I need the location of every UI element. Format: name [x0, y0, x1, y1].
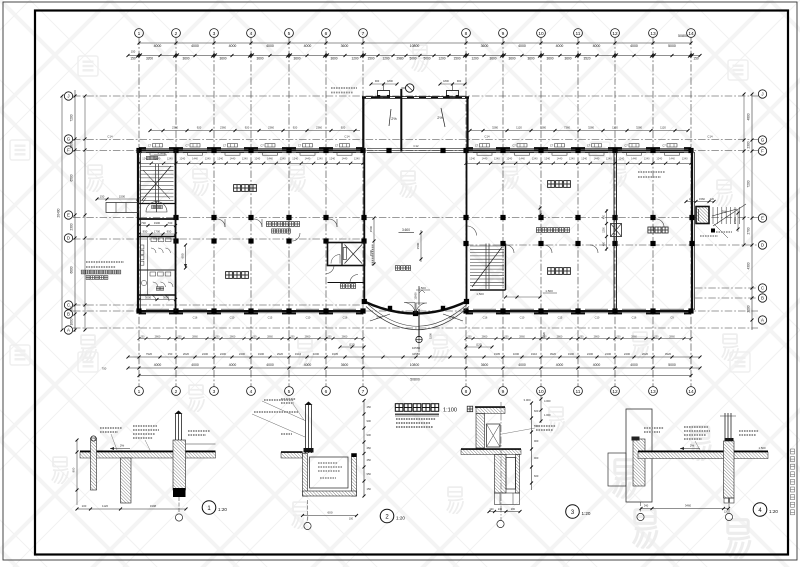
bottom dimension line 3 - 4000 row: [128, 367, 700, 369]
svg-text:J: J: [761, 92, 763, 97]
detail 4 bubble: [753, 503, 767, 517]
svg-text:G: G: [761, 138, 765, 143]
svg-text:3600: 3600: [293, 57, 300, 61]
svg-text:C10: C10: [230, 316, 235, 320]
svg-text:1998: 1998: [150, 504, 157, 508]
svg-text:2400: 2400: [202, 352, 209, 356]
elevator capacity rotated text: [372, 246, 374, 248]
annotation lines left of plan: [86, 261, 124, 263]
svg-text:1900: 1900: [258, 352, 265, 356]
window dim row above wall right wing: [470, 130, 688, 132]
svg-text:950: 950: [167, 230, 172, 234]
columns bottom wall: [136, 308, 141, 313]
svg-text:3520: 3520: [583, 57, 590, 61]
detail 3 wall below with cavity: [495, 455, 507, 494]
svg-text:600: 600: [534, 409, 539, 413]
detail 1 bottom dims: [77, 508, 186, 510]
lobby curved front wall thick: [364, 302, 466, 314]
stair landing wall: [139, 203, 176, 205]
small room below toilets doors: [150, 295, 156, 301]
svg-text:1240: 1240: [606, 156, 612, 160]
grid bubbles left side: [64, 92, 72, 334]
phi75 steel pipe label: [264, 399, 294, 401]
lobby right staircase: [470, 244, 504, 290]
svg-text:920: 920: [245, 125, 250, 129]
detail 1 left dim chain: [76, 440, 78, 505]
svg-text:C16: C16: [193, 316, 198, 320]
svg-text:1.500: 1.500: [418, 286, 426, 290]
office area label bottom-left wing: [226, 272, 249, 279]
svg-text:900: 900: [375, 79, 380, 83]
svg-text:4000: 4000: [266, 44, 274, 48]
office area label top-right wing: [548, 181, 571, 188]
detail 2 bubble: [380, 509, 394, 523]
axis bubble mid entrance: [406, 84, 414, 92]
svg-text:3280: 3280: [588, 125, 594, 129]
svg-text:2860: 2860: [557, 334, 563, 338]
title block vertical text right edge: [791, 449, 795, 515]
svg-text:3600: 3600: [219, 57, 226, 61]
svg-text:2400: 2400: [587, 352, 594, 356]
annotation right wing roof drain: [638, 171, 665, 173]
svg-text:7360: 7360: [564, 125, 570, 129]
svg-text:B: B: [761, 296, 764, 301]
svg-text:1240: 1240: [280, 156, 286, 160]
svg-text:1500: 1500: [367, 57, 374, 61]
svg-text:700: 700: [168, 221, 173, 225]
detail 3 bubble: [566, 505, 580, 519]
svg-text:1560: 1560: [699, 197, 705, 201]
svg-text:1000: 1000: [513, 352, 520, 356]
svg-text:3000: 3000: [145, 295, 152, 299]
svg-text:900: 900: [367, 433, 372, 437]
central bay roof drain boxes: [378, 91, 390, 98]
svg-text:2400: 2400: [239, 352, 246, 356]
grid bubbles bottom: [135, 387, 696, 396]
detail 4 boxes under right wall: [724, 498, 729, 503]
svg-text:J: J: [67, 94, 69, 99]
canopy centerline and anchor: [418, 309, 420, 336]
svg-text:1:20: 1:20: [582, 511, 591, 516]
svg-text:C16: C16: [632, 316, 637, 320]
svg-text:100: 100: [349, 518, 354, 521]
svg-text:4000: 4000: [556, 363, 564, 367]
svg-text:3600: 3600: [489, 57, 496, 61]
columns on lobby curve: [362, 299, 367, 304]
svg-text:10580: 10580: [412, 352, 420, 356]
svg-text:12: 12: [612, 389, 618, 395]
svg-text:3600: 3600: [481, 44, 489, 48]
svg-text:1240: 1240: [644, 156, 650, 160]
svg-text:5000: 5000: [423, 57, 430, 61]
svg-text:1:20: 1:20: [396, 516, 405, 521]
svg-text:150: 150: [168, 352, 173, 356]
svg-text:G: G: [67, 137, 71, 142]
svg-text:1800: 1800: [443, 79, 449, 83]
svg-text:2860: 2860: [267, 334, 273, 338]
top dimension line 1 with 4000 values: [139, 42, 691, 44]
window subdimension lines below text row: [137, 162, 692, 165]
detail 2 leader labels left: [281, 398, 296, 400]
svg-text:1440: 1440: [305, 156, 311, 160]
svg-text:1240: 1240: [506, 156, 512, 160]
svg-text:(120): (120): [476, 343, 482, 347]
svg-text:D: D: [67, 236, 70, 241]
interior dimension chain at corridor left: [185, 245, 187, 268]
svg-text:C14: C14: [107, 135, 113, 139]
svg-text:1240: 1240: [217, 156, 223, 160]
svg-text:2360: 2360: [268, 125, 274, 129]
svg-text:3600: 3600: [256, 57, 263, 61]
svg-text:1120: 1120: [612, 125, 618, 129]
svg-text:5: 5: [288, 31, 291, 37]
svg-text:3600: 3600: [341, 44, 349, 48]
bottom wall left wing with windows: [137, 310, 364, 312]
svg-text:1240: 1240: [242, 156, 248, 160]
svg-text:C7: C7: [475, 144, 479, 148]
top dimension line 2 subdivisions: [128, 55, 700, 57]
svg-text:2%: 2%: [391, 117, 397, 121]
svg-text:1240: 1240: [682, 156, 688, 160]
svg-text:1600: 1600: [70, 318, 74, 325]
svg-text:920: 920: [341, 125, 346, 129]
staircase surround wall right: [505, 244, 507, 291]
svg-text:1240: 1240: [254, 156, 260, 160]
shaft box with X on partition: [611, 224, 622, 237]
svg-text:1: 1: [138, 31, 141, 37]
svg-text:C7: C7: [148, 144, 152, 148]
svg-text:100: 100: [82, 504, 87, 508]
svg-text:2860: 2860: [519, 334, 525, 338]
svg-text:10800: 10800: [410, 363, 420, 367]
svg-text:4000: 4000: [304, 44, 312, 48]
svg-text:1440: 1440: [192, 156, 198, 160]
right exterior landing structure: [696, 207, 709, 224]
svg-text:900: 900: [367, 419, 372, 423]
detail 3 top parapet hatch: [476, 408, 505, 414]
svg-text:900: 900: [534, 456, 539, 460]
svg-text:1910: 1910: [531, 352, 538, 356]
svg-text:600: 600: [534, 474, 539, 478]
svg-text:1900: 1900: [154, 221, 161, 225]
svg-text:7200: 7200: [70, 114, 74, 121]
svg-text:C7: C7: [512, 144, 516, 148]
svg-text:1:100: 1:100: [443, 408, 457, 414]
central bay top wall: [362, 96, 469, 98]
svg-text:150: 150: [367, 487, 372, 491]
toilet block top wall: [139, 236, 176, 238]
central bay interior window line: [367, 148, 464, 150]
svg-text:C7: C7: [587, 144, 591, 148]
svg-text:240: 240: [644, 504, 649, 508]
detail 2 inner labels: [318, 462, 338, 464]
horizontal grid axis lines: [73, 96, 758, 328]
svg-text:1240: 1240: [469, 156, 475, 160]
svg-text:3600: 3600: [564, 57, 571, 61]
svg-text:2860: 2860: [631, 334, 637, 338]
svg-text:150: 150: [130, 57, 136, 61]
svg-text:450: 450: [367, 458, 372, 462]
detail 1 bottom node circle: [175, 514, 182, 521]
interior dimension right wing small: [539, 205, 541, 218]
svg-text:A: A: [761, 318, 764, 323]
bottom window dim rows under wall: [138, 334, 693, 340]
svg-text:2860: 2860: [342, 334, 348, 338]
svg-text:C9: C9: [670, 316, 674, 320]
svg-text:1900: 1900: [568, 352, 575, 356]
svg-text:2860: 2860: [230, 334, 236, 338]
svg-text:3920: 3920: [550, 352, 557, 356]
top wall right wing with windows: [466, 150, 693, 152]
svg-text:120: 120: [710, 197, 715, 201]
svg-text:2860: 2860: [305, 334, 311, 338]
svg-text:1.500: 1.500: [759, 446, 766, 450]
columns middle row lower: [173, 238, 178, 243]
svg-text:4000: 4000: [593, 44, 601, 48]
svg-text:1440: 1440: [669, 156, 675, 160]
svg-text:1240: 1240: [179, 156, 185, 160]
left staircase treads: [140, 164, 174, 204]
svg-text:11: 11: [576, 389, 581, 395]
watermark box icons: [10, 56, 750, 372]
detail 4 left small box: [608, 453, 626, 486]
svg-text:2300: 2300: [70, 223, 74, 230]
svg-text:3.600: 3.600: [402, 228, 410, 232]
svg-text:600: 600: [327, 511, 332, 515]
svg-text:800: 800: [70, 306, 74, 312]
svg-text:1120: 1120: [660, 125, 666, 129]
svg-text:14: 14: [688, 31, 694, 37]
svg-text:1:20: 1:20: [769, 509, 778, 514]
svg-text:6: 6: [325, 389, 328, 395]
svg-text:4000: 4000: [154, 44, 162, 48]
right vertical dimension chain: [751, 94, 753, 330]
vent duct annotation bold: [81, 270, 121, 274]
detail 4 slope arrow: [680, 448, 700, 450]
svg-text:1200: 1200: [603, 227, 606, 233]
canopy dimension ticks: [340, 346, 364, 348]
svg-text:450: 450: [367, 405, 372, 409]
svg-text:C16: C16: [483, 316, 488, 320]
detail 1 slab with hatch: [80, 452, 216, 458]
svg-text:3200: 3200: [146, 57, 153, 61]
left secondary dimension chain: [84, 96, 86, 330]
left stair block wall: [175, 150, 177, 311]
svg-text:2300: 2300: [747, 141, 751, 148]
svg-text:800: 800: [72, 467, 76, 472]
svg-text:2860: 2860: [192, 334, 198, 338]
svg-text:1:20: 1:20: [218, 507, 227, 512]
svg-text:1500: 1500: [416, 242, 420, 249]
svg-text:2: 2: [175, 389, 178, 395]
reading room label: [648, 227, 668, 233]
svg-text:12: 12: [612, 31, 618, 37]
interior partition right wing on grid 12: [613, 151, 615, 310]
svg-text:C15: C15: [558, 316, 563, 320]
svg-text:6: 6: [325, 31, 328, 37]
svg-text:1240: 1240: [292, 156, 298, 160]
svg-text:1905: 1905: [494, 352, 501, 356]
svg-text:2980: 2980: [396, 57, 403, 61]
columns middle row upper: [173, 215, 178, 220]
svg-text:3: 3: [213, 31, 216, 37]
watermark yi glyphs: [52, 45, 750, 559]
svg-text:(120): (120): [349, 343, 355, 347]
svg-text:F: F: [761, 149, 764, 154]
svg-text:4000: 4000: [593, 363, 601, 367]
detail 4 leader labels: [644, 427, 664, 429]
svg-text:4000: 4000: [191, 363, 199, 367]
left exterior entry porch: [106, 203, 138, 213]
svg-text:13: 13: [650, 31, 656, 37]
svg-text:3.000: 3.000: [524, 398, 531, 402]
svg-text:10800: 10800: [410, 44, 420, 48]
svg-text:3: 3: [213, 389, 216, 395]
svg-text:1440: 1440: [594, 156, 600, 160]
detail 4 right wall: [724, 441, 735, 498]
svg-text:20400: 20400: [57, 208, 61, 217]
double anchor ticks on line 2 at grid axes: [136, 53, 694, 58]
svg-text:50800: 50800: [678, 34, 688, 38]
corridor dims in left block: [139, 225, 176, 227]
svg-text:1240: 1240: [494, 156, 500, 160]
detail 4 slab: [638, 452, 768, 459]
svg-text:5000: 5000: [668, 44, 676, 48]
svg-text:700: 700: [141, 221, 146, 225]
svg-text:3460: 3460: [685, 504, 692, 508]
detail 3 centerline: [500, 402, 502, 520]
detail 1 roof pipes: [175, 414, 177, 440]
right landing leader dims: [714, 224, 728, 238]
window sill boxes below top wall: [150, 153, 680, 156]
svg-text:1.000: 1.000: [544, 413, 551, 417]
svg-text:C: C: [761, 286, 764, 291]
svg-text:3280: 3280: [492, 125, 498, 129]
svg-text:150: 150: [131, 50, 136, 54]
svg-text:2: 2: [175, 31, 178, 37]
vestibule bottom wall: [139, 218, 176, 220]
detail 1 bubble: [202, 501, 216, 515]
detail 4 node bubbles: [637, 513, 644, 520]
svg-text:1440: 1440: [267, 156, 273, 160]
svg-text:5000: 5000: [668, 363, 676, 367]
svg-text:C7: C7: [223, 144, 227, 148]
svg-text:2400: 2400: [605, 352, 612, 356]
svg-text:1440: 1440: [342, 156, 348, 160]
svg-text:C15: C15: [268, 316, 273, 320]
svg-text:600: 600: [181, 253, 185, 258]
svg-text:11: 11: [576, 31, 581, 37]
svg-text:1240: 1240: [656, 156, 662, 160]
columns top wall: [136, 148, 141, 153]
svg-text:1500: 1500: [369, 249, 373, 256]
svg-text:4: 4: [250, 31, 253, 37]
svg-text:1500: 1500: [369, 225, 373, 232]
shaft dim chain: [606, 209, 608, 251]
svg-text:1440: 1440: [482, 156, 488, 160]
svg-text:2860: 2860: [482, 334, 488, 338]
svg-text:13: 13: [650, 389, 656, 395]
svg-text:240: 240: [498, 508, 503, 511]
svg-text:7200: 7200: [747, 180, 751, 187]
annotation left of central bay: [331, 87, 357, 89]
svg-text:50800: 50800: [410, 378, 420, 382]
svg-text:2%: 2%: [437, 116, 443, 120]
svg-text:1905: 1905: [332, 352, 339, 356]
svg-text:1,500: 1,500: [476, 292, 484, 296]
central bay partition wall: [400, 89, 402, 152]
svg-text:2920: 2920: [277, 352, 284, 356]
interior dimension chain center hall: [420, 230, 422, 262]
svg-text:3600: 3600: [546, 57, 553, 61]
svg-text:2620: 2620: [183, 352, 190, 356]
right exterior wall: [691, 149, 693, 312]
meeting zone label left wing: [266, 222, 299, 227]
detail 1 right wall: [173, 440, 186, 490]
svg-text:C7: C7: [335, 144, 339, 148]
svg-text:1910: 1910: [295, 352, 302, 356]
svg-text:C10: C10: [306, 316, 311, 320]
svg-text:950: 950: [367, 472, 372, 476]
svg-text:2360: 2360: [220, 125, 226, 129]
svg-text:1240: 1240: [532, 156, 538, 160]
svg-text:9: 9: [502, 31, 505, 37]
detail 3 below-wall boxes: [495, 493, 520, 505]
svg-text:3600: 3600: [527, 57, 534, 61]
svg-text:950: 950: [143, 230, 148, 234]
meeting zone label right wing: [536, 228, 569, 233]
svg-text:150: 150: [100, 195, 105, 199]
svg-text:C12: C12: [413, 144, 419, 148]
svg-text:4000: 4000: [191, 44, 199, 48]
detail 2 trench walls: [303, 454, 308, 497]
atrium side walls: [363, 150, 365, 301]
svg-text:2360: 2360: [172, 125, 178, 129]
svg-text:2860: 2860: [669, 334, 675, 338]
svg-text:C7: C7: [298, 144, 302, 148]
svg-text:2620: 2620: [642, 352, 649, 356]
svg-text:400: 400: [603, 241, 606, 246]
svg-text:4000: 4000: [266, 363, 274, 367]
svg-text:3920: 3920: [665, 352, 672, 356]
svg-text:D: D: [761, 243, 764, 248]
svg-text:3600: 3600: [341, 363, 349, 367]
svg-text:3600: 3600: [330, 57, 337, 61]
svg-text:1440: 1440: [519, 156, 525, 160]
svg-text:10: 10: [538, 389, 544, 395]
svg-text:7: 7: [362, 31, 365, 37]
svg-text:1240: 1240: [354, 156, 360, 160]
svg-text:5000: 5000: [409, 57, 416, 61]
svg-text:1240: 1240: [167, 156, 173, 160]
svg-text:6600: 6600: [70, 266, 74, 273]
svg-text:1120: 1120: [516, 125, 522, 129]
detail 4 pipes above right wall: [724, 413, 726, 441]
svg-text:1500: 1500: [119, 195, 126, 199]
svg-text:7: 7: [362, 389, 365, 395]
svg-text:4000: 4000: [304, 363, 312, 367]
svg-text:8: 8: [465, 31, 468, 37]
svg-text:15000: 15000: [414, 292, 418, 300]
svg-text:900: 900: [457, 79, 462, 83]
svg-text:C16: C16: [343, 316, 348, 320]
svg-text:C7: C7: [550, 144, 554, 148]
svg-text:1240: 1240: [618, 156, 624, 160]
svg-text:C10: C10: [520, 316, 525, 320]
svg-text:1.500: 1.500: [545, 289, 553, 293]
window marker boxes above top wall: [153, 144, 678, 147]
svg-text:5: 5: [288, 389, 291, 395]
